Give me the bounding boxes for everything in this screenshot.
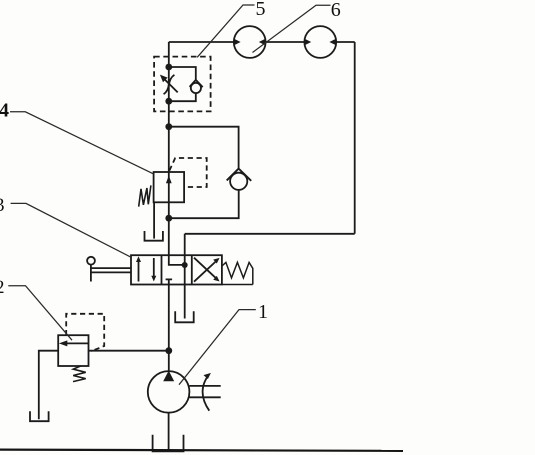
svg-text:5: 5 bbox=[256, 0, 266, 20]
relief valve 2 body bbox=[58, 335, 88, 366]
wire: valve 3 port P down to pump bbox=[168, 285, 170, 372]
wire: valve 4 drain bbox=[153, 202, 155, 238]
pump 1 circle bbox=[148, 371, 190, 413]
svg-text:6: 6 bbox=[331, 0, 341, 21]
wire: check branch of valve 4 bottom bbox=[169, 190, 239, 218]
hydraulic motor 6b bbox=[304, 26, 336, 58]
pump 1 shaft lines bbox=[189, 386, 220, 397]
valve 3 lever knob bbox=[87, 257, 95, 265]
wire: main pressure line vertical bbox=[168, 42, 170, 255]
valve 3 centre position through line bbox=[184, 255, 186, 284]
junction dot valve 4 top bbox=[165, 123, 172, 130]
junction dot in valve 3 centre bbox=[182, 262, 188, 268]
label 2 bbox=[0, 277, 5, 298]
tank for pump 1 bbox=[153, 435, 184, 452]
check valve of valve 4 (ball) bbox=[230, 173, 247, 190]
hydraulic motor 6a bbox=[234, 26, 266, 58]
junction dot valve 4 bottom bbox=[165, 215, 172, 222]
throttle adjust arrow of valve 5 bbox=[160, 75, 178, 93]
svg-text:1: 1 bbox=[258, 301, 268, 323]
label 5 bbox=[256, 0, 266, 20]
tank for relief valve 2 bbox=[30, 411, 49, 421]
svg-text:4: 4 bbox=[0, 100, 9, 122]
flow control valve 5 inner bypass rectangle bbox=[169, 67, 196, 101]
wire: port B drop into valve 3 bbox=[184, 234, 186, 255]
wire: top rail left segment to motor 6a bbox=[169, 41, 234, 43]
pump 1 output triangle bbox=[163, 371, 174, 382]
valve 3 lever rod bbox=[90, 265, 92, 282]
valve 3 right position crossed arrow 2 bbox=[194, 258, 220, 282]
wire: relief valve 2 output to pump line bbox=[89, 350, 169, 352]
wire arrow into motor 6a right bbox=[259, 39, 266, 45]
pump 1 rotation arrow arc bbox=[203, 373, 211, 411]
wire arrow into motor 6a left bbox=[234, 39, 241, 45]
valve 3 left position up arrow bbox=[136, 256, 141, 281]
valve 3 lever fork lines bbox=[91, 268, 131, 272]
valve 3 left position down arrow bbox=[151, 258, 156, 282]
wire: between motors bbox=[266, 41, 305, 43]
reducing valve 4 pilot dashed line bbox=[169, 158, 206, 187]
valve 3 centre position bend A to B bbox=[169, 255, 185, 265]
svg-text:2: 2 bbox=[0, 277, 5, 298]
junction dot valve 5 bottom bbox=[165, 98, 172, 105]
flow control valve 5 dashed enclosure bbox=[154, 57, 211, 112]
relief valve 2 spring bbox=[73, 366, 86, 382]
leader line for label 2 bbox=[8, 286, 72, 341]
wire arrow into motor 6b left bbox=[305, 39, 312, 45]
leader line for label 6 bbox=[253, 5, 331, 52]
reducing valve 4 body bbox=[154, 172, 185, 202]
wire: check branch of valve 4 top bbox=[169, 127, 239, 169]
leader line for label 5 bbox=[197, 5, 254, 57]
valve 3 right position crossed arrow 1 bbox=[194, 258, 220, 282]
leader line for label 3 bbox=[11, 203, 132, 257]
wire: relief valve 2 to its tank bbox=[39, 351, 58, 420]
label 1 bbox=[258, 301, 268, 323]
bottom border line bbox=[0, 450, 403, 451]
leader line for label 1 bbox=[179, 310, 256, 385]
label 3 bbox=[0, 195, 5, 216]
relief valve 2 flow arrow bbox=[59, 340, 89, 346]
junction dot valve 5 top bbox=[165, 64, 172, 71]
check valve in valve 5 (seat) bbox=[190, 80, 203, 87]
wire: motor 6b to right corner bbox=[336, 41, 355, 43]
valve 3 centre blocked port T symbol bbox=[166, 279, 173, 284]
reducing valve 4 spring bbox=[139, 185, 151, 206]
tank under valve 4 bbox=[145, 231, 163, 241]
relief valve 2 pilot dashed line bbox=[66, 314, 104, 352]
check valve in valve 5 (ball) bbox=[191, 83, 201, 93]
check valve of valve 4 (seat) bbox=[227, 169, 252, 181]
reducing valve 4 flow arrow bbox=[166, 176, 172, 184]
wire: valve 3 port T to tank bbox=[184, 285, 186, 319]
directional valve 3 body bbox=[131, 255, 222, 284]
throttle restrictor arcs of valve 5 bbox=[164, 75, 175, 94]
valve 3 return spring bbox=[222, 262, 253, 284]
wire: pump 1 suction line bbox=[168, 413, 170, 451]
leader line for label 4 bbox=[10, 112, 153, 174]
tank under valve 3 bbox=[175, 311, 194, 322]
wire: right vertical return line bbox=[354, 42, 356, 234]
label 4 bbox=[0, 100, 9, 122]
wire: horizontal return to valve port B bbox=[185, 233, 355, 235]
svg-text:3: 3 bbox=[0, 195, 5, 216]
junction dot pump line bbox=[165, 347, 172, 354]
wire arrow into motor 6b right bbox=[329, 39, 336, 45]
label 6 bbox=[331, 0, 341, 21]
